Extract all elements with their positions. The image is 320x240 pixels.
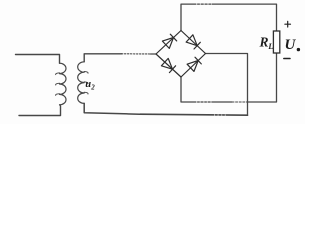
svg-text:R: R [259,35,269,50]
wire right node to down corner [206,54,248,116]
wire bridge bottom node to lower rail [181,77,232,102]
label Uo subscript dot [297,48,300,51]
bridge edge left-bottom [156,54,181,77]
svg-text:L: L [267,41,273,51]
diode bridge [156,31,206,78]
secondary winding cusps [84,72,88,95]
diode D1 bar [170,34,176,41]
diode D1 triangle (points up-right to top node) [162,38,173,49]
bridge edge bottom-right [181,54,206,78]
bridge edge left-top [156,31,181,55]
svg-text:2: 2 [90,83,95,91]
wire secondary to bridge (faded dashes) [122,53,151,55]
primary winding cusps [56,73,60,95]
diode D3 triangle (points down-right to bottom node) [161,58,172,69]
plus sign [284,21,291,58]
wire bottom long [140,114,248,115]
bridge edge top-right [181,31,206,54]
diode D4 triangle (points up-right to right node) [187,61,198,72]
wire primary bottom lead [19,105,61,116]
wire primary top lead [16,55,60,64]
wire secondary bottom lead [84,103,140,114]
wire secondary top lead [84,54,121,62]
primary winding W1 [60,63,67,105]
scan fades on wires [196,4,226,115]
minus sign [284,58,290,60]
wire lower rail faded [232,101,247,103]
diode D4 bar [195,57,201,64]
resistor RL box [273,31,279,53]
wire bridge top node to top rail [181,4,277,31]
diode D2 bar [194,42,200,49]
svg-text:U: U [285,37,297,53]
secondary winding W2 [78,62,85,104]
diode D2 triangle (points down-right to right node) [186,35,197,46]
diode D3 bar [169,66,175,73]
